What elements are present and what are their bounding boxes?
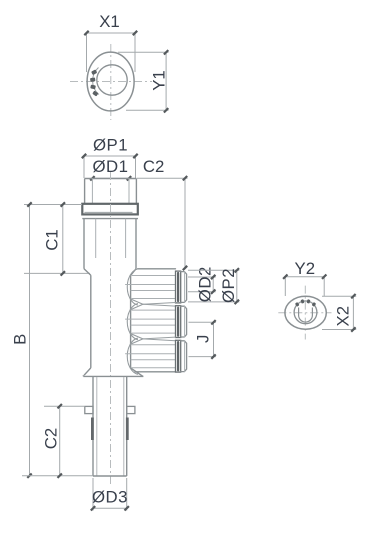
seam 1-2 wedge (143, 303, 176, 305)
dimension C1 (24, 204, 82, 206)
stem end edge (22, 475, 93, 477)
svg-text:ØD2: ØD2 (196, 266, 215, 302)
stem sides (92, 376, 94, 476)
inner bore circle (294, 301, 317, 324)
SIDE PORTS (126, 269, 187, 374)
port 2 release cap (181, 306, 187, 337)
centerline horizontal (70, 81, 152, 83)
port 1 collar (176, 271, 181, 303)
svg-text:X1: X1 (99, 12, 120, 31)
seam 1-2 chevron (130, 299, 143, 310)
body chamfer left (84, 269, 91, 275)
dimension ØP1 (84, 155, 136, 157)
dimension ØP2 (188, 269, 239, 271)
port 1 body top edge (138, 268, 176, 270)
stem dark band left (91, 418, 94, 441)
outer oval release ring (87, 52, 134, 111)
port 2 collar (176, 306, 181, 338)
circlip arc (93, 68, 99, 95)
port 3 body bottom edge (135, 371, 176, 373)
circlip claws (295, 302, 300, 307)
neck sides (90, 275, 92, 368)
side port bore U profile (299, 308, 313, 323)
svg-text:X2: X2 (334, 306, 353, 327)
port 2 inner lines (132, 309, 176, 311)
bottom flange (83, 375, 143, 377)
dimension B (29, 205, 31, 476)
ring collar (82, 204, 138, 215)
body centerline (110, 172, 112, 486)
port 2 left arc (127, 304, 137, 340)
svg-text:Y2: Y2 (295, 259, 316, 278)
port 3 inner lines (132, 344, 176, 346)
body top edge (82, 218, 138, 220)
port 1 inner lines (132, 275, 176, 277)
seam 2-3 wedge (143, 337, 176, 339)
circlip arc (296, 301, 316, 306)
right claw tab (127, 406, 135, 413)
port 1 release cap (181, 272, 187, 303)
dimension C2 upper (137, 177, 188, 179)
neck flare right (131, 368, 143, 377)
neck flare left (84, 368, 91, 375)
release ring sides (84, 179, 86, 204)
stem dark band right (126, 418, 129, 441)
body sides (83, 219, 85, 269)
dimension C2 lower (44, 405, 84, 407)
svg-text:ØP1: ØP1 (93, 136, 128, 155)
svg-text:C2: C2 (42, 428, 61, 449)
oval release ring (285, 296, 326, 329)
centerline vertical (304, 286, 306, 340)
port 1 left arc (127, 269, 137, 305)
dimension ØD2 (188, 276, 216, 278)
circlip claws (91, 69, 97, 75)
port 3 release cap (181, 341, 187, 372)
centerline horizontal (278, 312, 331, 314)
seam 2-3 chevron (130, 334, 143, 345)
body bore lines (95, 219, 97, 258)
inner bore circle (97, 65, 127, 95)
port 3 left arc (127, 338, 137, 374)
dimension ØD3 (92, 478, 94, 511)
left claw tab (85, 406, 93, 413)
stem bore lines (96, 377, 98, 476)
svg-text:C2: C2 (143, 157, 164, 176)
svg-text:ØP2: ØP2 (219, 268, 238, 303)
svg-text:J: J (194, 335, 213, 343)
release ring top edge (85, 178, 137, 180)
dimension X2 (322, 295, 356, 297)
svg-text:B: B (11, 334, 30, 345)
ring bore lines (91, 179, 93, 204)
centerline vertical (110, 44, 112, 120)
dimension ØD1 (92, 177, 129, 179)
svg-text:C1: C1 (43, 229, 62, 250)
svg-text:ØD3: ØD3 (92, 488, 128, 507)
port 3 collar (176, 340, 181, 372)
dimension J (189, 321, 217, 323)
body chamfer right (131, 269, 136, 275)
